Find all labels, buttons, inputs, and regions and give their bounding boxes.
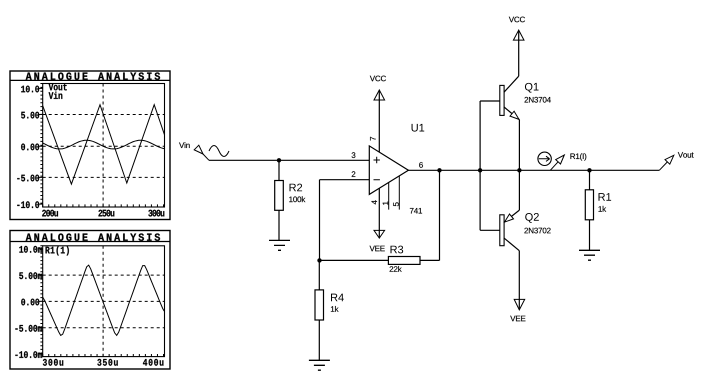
label R3 — [391, 246, 404, 254]
current probe R1(I) — [538, 152, 551, 165]
pin 6 label — [419, 162, 423, 168]
label U1 — [412, 124, 425, 132]
AC source sine symbol — [209, 146, 229, 157]
value 2N3702 — [524, 228, 550, 234]
value 2N3704 — [525, 97, 551, 103]
scope plot 2 frame — [43, 246, 165, 357]
scope plot 2 y labels — [19, 246, 42, 253]
power VCC (top) — [513, 30, 524, 40]
scope plot 2 y-axis ticks — [39, 246, 43, 354]
wire pin 4 / VEE lead — [378, 188, 380, 237]
wire R1 top — [589, 170, 591, 190]
wire pin 2 — [320, 179, 370, 181]
resistor R2 — [275, 181, 284, 211]
pin 5 label — [393, 202, 399, 206]
wire inverting input vertical — [319, 180, 321, 261]
node base rail junction — [478, 168, 482, 172]
power VCC (op-amp) — [374, 90, 385, 100]
scope plot 2 x labels — [43, 359, 63, 366]
label VCC (top) — [509, 17, 525, 23]
label R2 — [290, 184, 303, 192]
wire R4 top — [318, 260, 320, 290]
transistor Q1 — [500, 85, 504, 115]
scope plot 2 R1(1) waveform — [43, 265, 165, 335]
resistor R1 — [585, 190, 593, 220]
value 1k (R1) — [599, 206, 607, 212]
wire Q1 emitter — [518, 120, 520, 171]
scope plot 1 box — [10, 71, 170, 220]
node R1 junction — [587, 168, 591, 172]
pin 1 label — [383, 201, 389, 204]
node feedback tap — [437, 168, 441, 172]
value 741 — [410, 208, 422, 214]
scope plot 1 x labels — [42, 210, 58, 217]
label VEE (bottom) — [510, 316, 525, 322]
scope plot 2 gridlines — [43, 246, 165, 357]
label R1(I) — [570, 153, 586, 160]
label Q2 — [525, 213, 539, 223]
node input/R2 junction — [277, 158, 281, 162]
scope plot 1 frame — [43, 84, 165, 208]
ground below R2 — [269, 240, 290, 250]
scope plot 1 x-axis ticks — [43, 204, 164, 207]
wire R2 top — [278, 160, 280, 180]
pin 7 label — [370, 137, 376, 141]
wire feedback vertical — [439, 170, 441, 260]
resistor R3 — [388, 257, 420, 265]
node R4 junction — [317, 258, 321, 262]
wire Q1 collector to VCC — [518, 31, 520, 77]
wire Q2 emitter — [518, 170, 520, 210]
wire R4 bottom — [318, 320, 320, 360]
scope plot 2 box — [10, 231, 170, 370]
wire output rail — [408, 169, 659, 171]
scope plot 1 legend — [49, 84, 67, 91]
wire R2 bottom — [278, 210, 280, 240]
wire R1 bottom — [589, 220, 591, 251]
wire pin 7 / VCC lead — [378, 91, 380, 153]
node emitter junction — [517, 168, 521, 172]
value 100k — [289, 196, 305, 202]
wire R3 right — [420, 259, 440, 261]
wire Q2 collector to VEE — [518, 251, 520, 310]
scope plot 2 x-axis ticks — [43, 354, 164, 357]
op-amp U1 — [369, 146, 408, 195]
label VEE (op-amp) — [370, 246, 385, 252]
pin 4 label — [372, 200, 378, 204]
scope plot 1 y labels — [21, 86, 39, 93]
wire input rail — [209, 159, 369, 161]
power VEE (bottom) — [514, 299, 525, 310]
scope plot 1 Vout waveform — [43, 105, 165, 184]
pin 1 stub — [388, 182, 390, 209]
scope plot 1 y-axis ticks — [39, 84, 43, 205]
scope plot 2 title — [26, 233, 160, 240]
ground below R1 — [579, 250, 600, 260]
label R1 — [599, 193, 612, 201]
label Vout — [678, 152, 694, 158]
scope plot 1 title — [26, 72, 160, 79]
ground below R4 — [309, 360, 330, 370]
wire R3 left — [320, 259, 389, 261]
transistor Q2 — [500, 215, 504, 246]
label R4 — [331, 294, 344, 302]
scope plot 1 Vin waveform — [43, 140, 165, 149]
pin 3 label — [352, 152, 356, 158]
scope plot 2 legend — [46, 246, 69, 255]
terminal Vin — [194, 145, 203, 154]
resistor R4 — [315, 290, 324, 320]
wire base rail — [480, 101, 500, 230]
terminal Vout — [659, 162, 667, 170]
label Vin — [179, 142, 190, 148]
power VEE (op-amp) — [374, 230, 385, 238]
label VCC (op-amp) — [370, 76, 386, 82]
pin 5 stub — [398, 176, 400, 210]
label Q1 — [525, 83, 539, 93]
scope plot 1 gridlines — [43, 84, 165, 208]
pin 2 label — [352, 171, 356, 177]
value 1k (R4) — [331, 306, 339, 312]
value 22k — [390, 266, 402, 272]
